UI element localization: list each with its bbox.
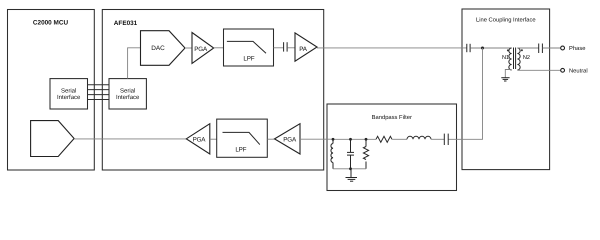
wire C1 to PA <box>287 47 295 49</box>
svg-text:PGA: PGA <box>283 137 297 144</box>
wire primary bottom to ground <box>505 70 511 78</box>
capacitor C3 series <box>444 134 448 145</box>
capacitor C5 <box>539 44 543 54</box>
resistor R1 shunt <box>363 139 368 169</box>
serial interface AFE <box>109 79 146 109</box>
node shunt resistor <box>365 138 368 141</box>
wire chevron to PGA RX <box>74 138 186 140</box>
block Bandpass Filter <box>327 104 457 191</box>
terminal Neutral <box>561 67 588 74</box>
block C2000 MCU <box>8 10 95 171</box>
core <box>513 48 515 70</box>
polarity dot N1 <box>507 49 509 51</box>
block AFE031 <box>102 10 323 171</box>
svg-text:Neutral: Neutral <box>569 67 588 74</box>
svg-text:N1: N1 <box>502 55 509 61</box>
SPI bus wires <box>88 85 110 100</box>
svg-text:Interface: Interface <box>57 94 81 101</box>
op-amp PGA RX left <box>186 124 210 154</box>
bandpass main wire <box>333 138 376 140</box>
node ground junction <box>349 167 352 170</box>
wire secondary bottom to neutral terminal <box>517 69 560 71</box>
svg-text:PA: PA <box>299 46 308 53</box>
op-amp PGA TX <box>192 33 214 64</box>
svg-text:LPF: LPF <box>235 146 246 153</box>
op-amp PA <box>295 33 317 61</box>
DAC <box>141 31 186 66</box>
wire LPF to C1 <box>274 47 284 49</box>
svg-text:DAC: DAC <box>151 45 165 52</box>
capacitor C4 <box>467 44 470 52</box>
op-amp PGA RX right <box>275 124 301 154</box>
wire serial interface to DAC <box>128 48 141 79</box>
bandpass bottom wire <box>333 168 366 170</box>
svg-text:Bandpass Filter: Bandpass Filter <box>372 114 412 121</box>
filter LPF RX <box>217 119 268 157</box>
node shunt inductor <box>332 138 335 141</box>
capacitor C2 shunt <box>347 139 354 169</box>
wire L2 to C3 <box>431 138 444 140</box>
wire secondary top to C5 <box>517 47 538 49</box>
svg-text:Serial: Serial <box>120 88 135 95</box>
svg-text:Line Coupling Interface: Line Coupling Interface <box>476 17 536 24</box>
wire PGA to LPF <box>214 47 224 49</box>
ground bandpass <box>346 169 358 181</box>
node junction TX/RX <box>481 47 484 50</box>
wire C5 to phase terminal <box>543 47 561 49</box>
transformer T1 <box>502 48 530 71</box>
svg-text:PGA: PGA <box>194 46 208 53</box>
capacitor C1 <box>284 42 288 51</box>
svg-text:AFE031: AFE031 <box>114 20 138 27</box>
svg-text:LPF: LPF <box>243 55 254 62</box>
wire DAC to PGA <box>185 47 192 49</box>
MCU ADC chevron <box>31 121 75 157</box>
ground transformer <box>501 78 509 81</box>
secondary winding N2 <box>517 48 520 70</box>
svg-text:PGA: PGA <box>193 137 207 144</box>
svg-text:Interface: Interface <box>116 94 140 101</box>
wire junction down to bandpass filter <box>448 48 482 139</box>
resistor R2 series <box>376 136 392 142</box>
svg-text:C2000 MCU: C2000 MCU <box>33 20 69 27</box>
polarity dot N2 <box>521 49 523 51</box>
wire bandpass to PGA RX right <box>300 138 333 140</box>
wire LPF to PGA RX right <box>267 138 274 140</box>
wire R2 to L2 <box>392 138 407 140</box>
wire PGA to LPF RX <box>210 138 217 140</box>
wire PA to coupling capacitor <box>317 47 467 49</box>
wire C4 to transformer primary <box>470 47 511 49</box>
serial interface MCU <box>50 79 88 109</box>
primary winding N1 <box>509 48 512 70</box>
svg-text:Serial: Serial <box>61 88 76 95</box>
inductor L1 shunt <box>331 139 333 169</box>
svg-text:N2: N2 <box>523 55 530 61</box>
inductor L2 series <box>407 136 431 139</box>
filter LPF TX <box>224 29 274 66</box>
node shunt capacitor <box>349 138 352 141</box>
terminal Phase <box>561 45 586 52</box>
svg-text:Phase: Phase <box>569 45 585 52</box>
block Line Coupling Interface <box>462 9 550 170</box>
